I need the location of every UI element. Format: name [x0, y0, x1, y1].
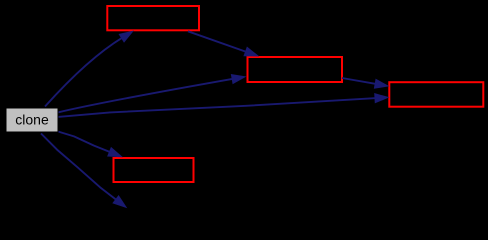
- wire: edge node N1 to node N2: [188, 31, 259, 56]
- node clone (root, grey): [6, 108, 58, 132]
- node N4 (red box, bottom): [114, 158, 194, 182]
- wire: edge clone to node N3: [58, 93, 390, 117]
- node N3 (red box, right): [389, 82, 483, 107]
- wire: edge clone to node N2: [58, 74, 247, 112]
- wire: edge clone to hidden node N5: [41, 134, 127, 209]
- wire: edge node N2 to node N3: [342, 78, 390, 89]
- node N1 (red box, top): [107, 6, 199, 30]
- wire: edge clone to node N4: [58, 132, 123, 158]
- wire: edge clone to node N1: [45, 31, 134, 107]
- node N2 (red box, middle): [248, 57, 343, 82]
- svg-text:clone: clone: [15, 112, 49, 128]
